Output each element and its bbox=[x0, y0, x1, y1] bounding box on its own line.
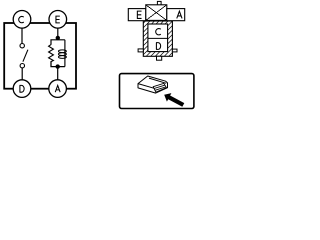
node A bbox=[49, 80, 67, 98]
junction dot top bbox=[56, 36, 60, 40]
node E bbox=[49, 10, 67, 28]
body bottom tab bbox=[157, 56, 162, 60]
empty terminal crossed cell bbox=[146, 5, 167, 21]
connector socket detail bbox=[153, 83, 166, 92]
body right tab bbox=[172, 49, 177, 52]
resistor bbox=[49, 45, 54, 67]
inductor coil bbox=[58, 40, 66, 67]
wire E down bbox=[57, 28, 59, 41]
node D bbox=[13, 80, 31, 98]
wire to A bbox=[57, 67, 59, 81]
terminal C label bbox=[156, 29, 161, 35]
arrow bbox=[164, 93, 184, 107]
switch blade bbox=[23, 50, 28, 62]
connector 3d icon bbox=[138, 76, 168, 93]
node C bbox=[13, 10, 31, 28]
connector top tab bbox=[157, 1, 161, 5]
terminal A cell bbox=[167, 9, 185, 21]
switch contact lower bbox=[20, 63, 24, 67]
body left tab bbox=[138, 49, 143, 52]
connector body hatched shell bbox=[143, 21, 172, 56]
wire bottom bar bbox=[51, 61, 65, 66]
wire: component box outline bbox=[4, 23, 76, 89]
icon frame bbox=[120, 74, 194, 109]
switch contact upper bbox=[20, 44, 24, 48]
terminal E cell bbox=[128, 9, 146, 21]
terminal D label bbox=[156, 43, 161, 50]
junction dot bottom bbox=[56, 64, 60, 68]
wire switch to D bbox=[21, 68, 23, 81]
wire top bar bbox=[51, 40, 65, 45]
wire C to switch bbox=[21, 28, 23, 44]
